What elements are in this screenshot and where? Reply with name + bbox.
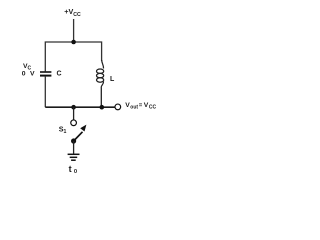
svg-text:C: C [57, 71, 62, 78]
svg-text:0: 0 [74, 169, 77, 175]
wire capacitor to bottom rail [44, 77, 46, 108]
capacitor C bottom plate [40, 75, 51, 77]
node output terminal circle [115, 104, 121, 110]
svg-text:+VCC: +VCC [64, 7, 81, 18]
svg-text:CC: CC [149, 105, 157, 111]
switch S1 fixed contact circle [71, 120, 77, 126]
svg-text:=: = [139, 103, 143, 109]
svg-text:0: 0 [22, 71, 26, 78]
switch S1 arm with arrow [74, 125, 87, 141]
switch S1 pivot dot [71, 138, 76, 143]
node junction dot inductor branch [100, 105, 105, 110]
wire inductor to bottom rail [100, 88, 102, 108]
wire bottom rail [45, 106, 114, 108]
svg-text:L: L [110, 76, 115, 83]
node junction dot VCC/top rail [71, 40, 76, 45]
inductor L coil [97, 60, 104, 88]
ground [68, 154, 80, 160]
svg-text:t: t [69, 164, 72, 174]
node junction dot switch branch [71, 105, 76, 110]
wire top rail [45, 42, 101, 71]
wire VCC stem [73, 19, 75, 42]
svg-text:S1: S1 [59, 124, 67, 135]
svg-text:V: V [30, 71, 35, 78]
svg-text:out: out [130, 105, 138, 111]
capacitor C top plate [40, 71, 51, 73]
wire pivot to ground [73, 141, 75, 154]
wire switch stub [73, 107, 75, 120]
